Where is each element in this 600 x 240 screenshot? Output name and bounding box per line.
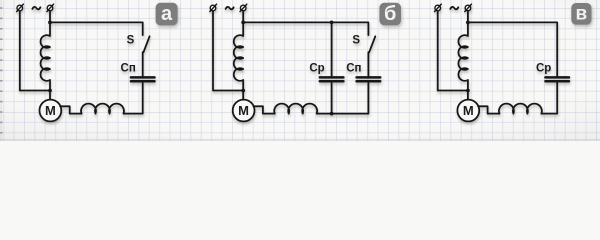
AC source symbol [226,7,234,9]
terminal X2 [47,4,54,12]
wire: left supply lead [20,11,50,91]
wire: right lead down [49,11,51,23]
switch S blade [369,36,375,52]
junction: Cp branch top [330,21,334,25]
vignette [0,0,600,141]
motor M1 [457,100,479,122]
switch S blade [144,36,150,52]
wire: top bus to capacitor branch [468,22,557,76]
wire: capacitor to switch [142,52,144,76]
AC source symbol [450,7,458,9]
wire: stub to motor [242,91,244,100]
terminal X2 [240,4,247,12]
terminal X1 [435,4,442,12]
junction: top node [241,21,245,25]
wire: left supply lead [438,11,468,91]
wire: capacitor to switch [367,52,369,76]
junction: motor top node [466,89,470,93]
wire: motor to aux winding [478,106,499,113]
badge a [156,3,178,26]
badge b [379,3,401,25]
junction: motor top node [48,89,52,93]
terminal X2 [465,4,472,12]
wire: right lead down [242,11,244,23]
auxiliary winding L2 [274,104,317,114]
motor M1 [40,100,62,122]
wire: left supply lead [213,11,243,91]
wire: bottom bus up to capacitor [124,83,143,114]
wire: top bus to switch branch [243,22,368,35]
wire: motor to aux winding [60,106,81,113]
paper edge shading [0,139,600,141]
wire: right lead down [467,11,469,23]
junction: Cp branch bottom [330,112,334,116]
capacitor Cp (starting) plates [131,77,155,81]
wire: motor to aux winding [253,106,274,113]
capacitor Cp (run) plates [320,77,344,81]
wire: Cp branch lower [331,83,333,114]
main winding L1 [458,22,467,90]
capacitor Cn (start) plates [357,77,381,81]
capacitor Cp (run) plates [545,77,569,81]
main winding L1 [234,22,243,90]
auxiliary winding L2 [499,104,542,114]
terminal X1 [210,4,217,12]
terminal X1 [17,4,24,12]
wire: bottom bus to switch branch [317,83,369,114]
main winding L1 [41,22,50,90]
wire: Cp branch upper [331,22,333,76]
motor M1 [233,100,255,122]
left margin ticks [0,7,3,133]
junction: top node [48,21,52,25]
junction: top node [466,21,470,25]
auxiliary winding L2 [81,104,124,114]
AC source symbol [32,7,40,9]
wire: top bus to switch branch [50,22,143,35]
wire: stub to motor [467,91,469,100]
junction: motor top node [241,89,245,93]
wire: stub to motor [49,91,51,100]
badge v [571,3,591,25]
wire: bottom bus up to capacitor [541,83,557,114]
